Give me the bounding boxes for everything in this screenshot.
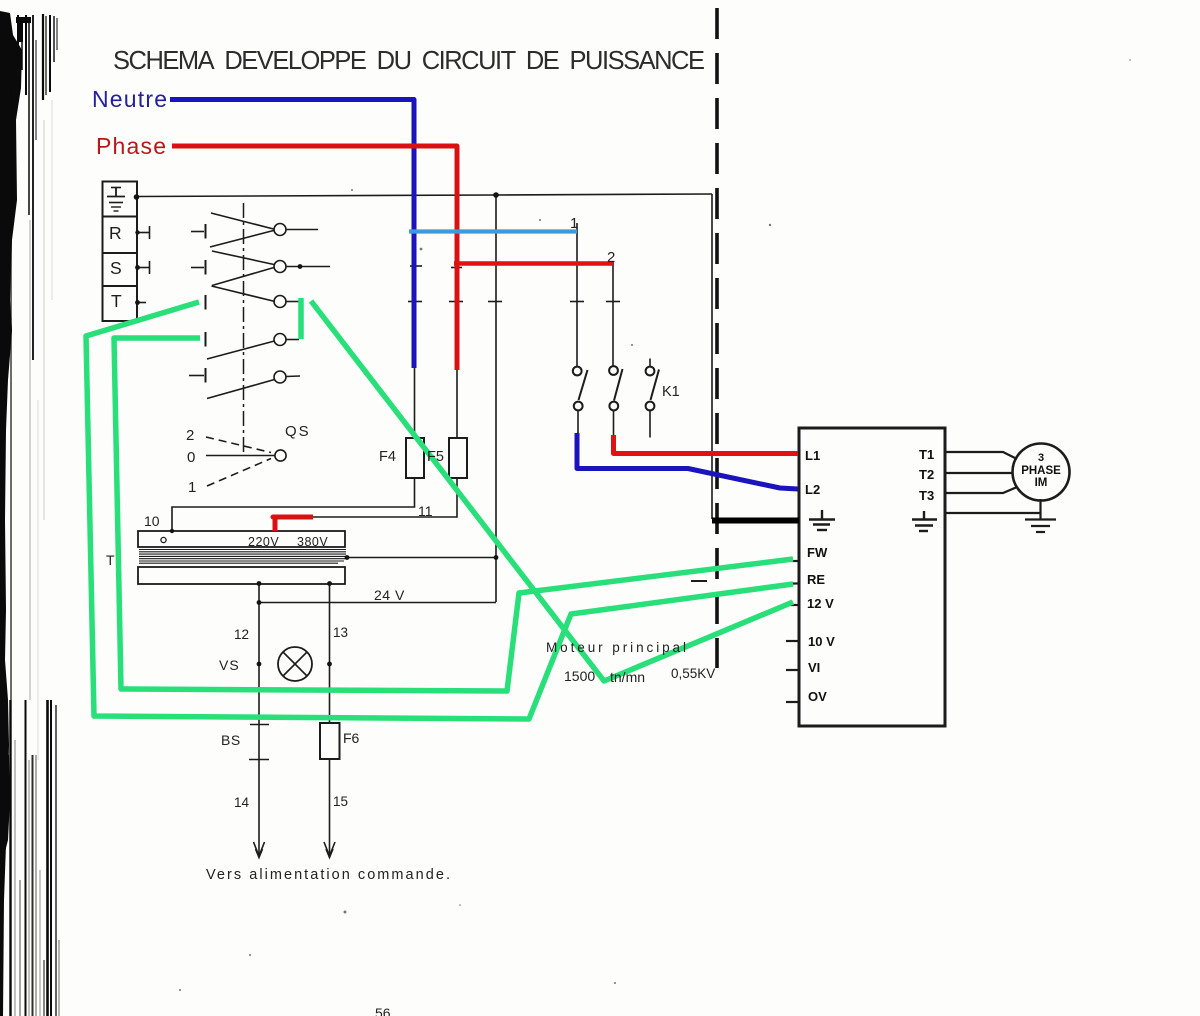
svg-text:Moteur principal: Moteur principal — [546, 640, 686, 655]
svg-text:12 V: 12 V — [807, 596, 834, 611]
svg-text:K1: K1 — [662, 384, 680, 400]
svg-text:380V: 380V — [297, 535, 328, 549]
svg-text:L1: L1 — [805, 448, 820, 463]
svg-text:Phase: Phase — [96, 133, 167, 159]
svg-text:tn/mn: tn/mn — [610, 669, 645, 685]
svg-text:Vers alimentation commande.: Vers alimentation commande. — [206, 867, 450, 883]
svg-text:QS: QS — [285, 423, 311, 440]
svg-text:2: 2 — [186, 427, 194, 444]
svg-text:1: 1 — [570, 215, 578, 232]
svg-text:F4: F4 — [379, 449, 396, 465]
svg-text:0: 0 — [187, 449, 195, 466]
svg-text:S: S — [110, 258, 122, 278]
svg-text:2: 2 — [607, 249, 615, 266]
svg-text:FW: FW — [807, 545, 828, 560]
svg-text:11: 11 — [418, 503, 433, 519]
svg-text:10: 10 — [144, 513, 160, 529]
svg-text:VI: VI — [808, 660, 820, 675]
svg-text:T2: T2 — [919, 467, 934, 482]
svg-text:220V: 220V — [248, 535, 279, 549]
svg-text:T3: T3 — [919, 488, 934, 503]
svg-text:3: 3 — [1038, 452, 1044, 464]
svg-text:SCHEMA DEVELOPPE DU CIRCUIT: SCHEMA DEVELOPPE DU CIRCUIT DE PUISSANCE — [113, 47, 705, 75]
svg-text:0,55KV: 0,55KV — [671, 666, 715, 681]
svg-text:T1: T1 — [919, 447, 934, 462]
svg-text:T: T — [106, 552, 115, 568]
svg-text:L2: L2 — [805, 482, 820, 497]
svg-text:BS: BS — [221, 732, 241, 748]
svg-text:RE: RE — [807, 572, 825, 587]
svg-text:F6: F6 — [343, 730, 360, 746]
svg-text:F5: F5 — [427, 449, 444, 465]
svg-text:R: R — [109, 223, 122, 243]
svg-text:56: 56 — [375, 1005, 391, 1016]
svg-text:Neutre: Neutre — [92, 86, 168, 112]
svg-text:24 V: 24 V — [374, 587, 405, 603]
svg-text:T: T — [111, 291, 122, 311]
svg-text:PHASE: PHASE — [1021, 465, 1061, 477]
svg-text:VS: VS — [219, 657, 240, 673]
svg-text:1500: 1500 — [564, 668, 595, 684]
svg-text:1: 1 — [188, 479, 196, 496]
svg-text:12: 12 — [234, 627, 249, 642]
svg-text:15: 15 — [333, 794, 348, 809]
svg-text:13: 13 — [333, 625, 348, 640]
svg-text:10 V: 10 V — [808, 634, 835, 649]
svg-text:IM: IM — [1035, 477, 1048, 489]
svg-text:14: 14 — [234, 795, 250, 810]
svg-text:OV: OV — [808, 689, 827, 704]
